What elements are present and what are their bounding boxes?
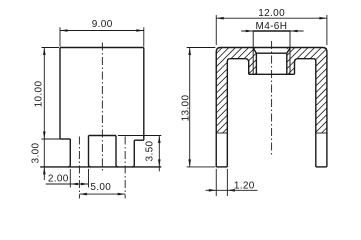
right step	[134, 139, 144, 141]
dimension 10.00 line	[42, 48, 71, 140]
3.00 bottom arrow up (below line)	[43, 167, 46, 175]
hole minor right	[286, 53, 288, 74]
ceiling right	[297, 58, 313, 60]
svg-text:3.50: 3.50	[145, 140, 156, 161]
centerline right view	[271, 41, 273, 156]
dimension 5.00 line	[79, 193, 125, 195]
svg-text:12.00: 12.00	[258, 8, 285, 19]
boss left chamfer+wall	[246, 59, 249, 75]
svg-text:13.00: 13.00	[181, 95, 192, 122]
5.00 arrows	[79, 193, 87, 196]
part outline right view	[216, 48, 327, 167]
dimension 3.50	[118, 136, 161, 172]
M4 box top (bold)	[253, 30, 290, 32]
part outline left view	[40, 48, 161, 167]
thread major lines + M4 extension	[253, 31, 290, 74]
svg-text:9.00: 9.00	[92, 19, 113, 30]
left inner wall + ceiling fillet	[227, 59, 230, 167]
svg-text:2.00: 2.00	[48, 173, 69, 184]
right inner wall + ceiling fillet	[313, 59, 316, 167]
hole top (drill end)	[256, 52, 286, 54]
centerline main left view	[101, 43, 103, 172]
dimension 9.00	[60, 27, 144, 46]
dimension 13.00	[187, 48, 216, 167]
arrowheads left view	[43, 29, 161, 195]
ceiling left	[230, 58, 246, 60]
foot2 left side with bottom fillet	[116, 136, 118, 167]
right leg bottom	[316, 166, 327, 168]
dimension texts right view	[181, 8, 288, 192]
centerline foot2	[124, 137, 126, 199]
hole top chamfer left	[253, 48, 256, 53]
dimension texts left view	[30, 19, 155, 193]
2.00 arrows outward	[70, 183, 78, 186]
shared down arrow at step	[43, 132, 46, 140]
dimension M4-6H line	[241, 30, 303, 32]
12.00 arrows	[216, 17, 224, 20]
svg-text:1.20: 1.20	[234, 180, 255, 191]
left edge	[59, 48, 61, 140]
left leg bottom	[216, 166, 227, 168]
svg-text:10.00: 10.00	[34, 81, 45, 108]
svg-text:3.00: 3.00	[30, 142, 41, 163]
dimension 1.20	[206, 169, 258, 196]
left step	[60, 138, 70, 140]
9.00 arrows	[60, 29, 68, 32]
dimension 2.00	[46, 169, 89, 188]
hatch cut-off lines	[216, 132, 327, 134]
13.00 arrows	[188, 48, 191, 56]
hatch lines	[205, 38, 340, 145]
foot2 right side with bottom fillet	[132, 140, 134, 167]
3.50 arrows	[158, 136, 161, 144]
middle notch top	[89, 135, 117, 137]
dimension 3.00 line	[43, 139, 45, 180]
top edge	[60, 47, 144, 49]
svg-text:M4-6H: M4-6H	[256, 21, 288, 32]
hole top chamfer right	[287, 48, 290, 53]
10.00 top arrow up	[43, 48, 46, 56]
foot1 left side with bottom fillet	[68, 139, 70, 167]
hole minor left	[255, 53, 257, 74]
svg-text:5.00: 5.00	[90, 182, 111, 193]
foot1 right side with bottom fillet	[89, 136, 91, 167]
bottom line	[40, 166, 161, 168]
arrowheads right view	[188, 17, 327, 192]
dimension 12.00	[216, 15, 327, 45]
boss right chamfer+wall	[295, 59, 298, 75]
outer profile with rounded top corners	[216, 48, 327, 167]
M4-6H arrows outside pointing inward	[246, 30, 254, 33]
1.20 arrows outside pointing inward	[209, 189, 217, 192]
centerline foot1	[78, 137, 80, 199]
boss bottom	[249, 73, 295, 75]
right edge	[143, 48, 145, 141]
